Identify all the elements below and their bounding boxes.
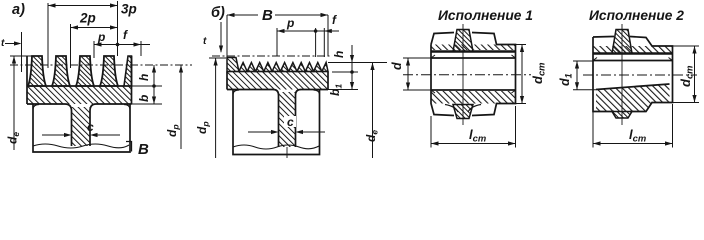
svg-text:c: c [287, 115, 294, 129]
svg-text:В: В [138, 141, 149, 158]
svg-text:b: b [137, 95, 151, 102]
svg-text:h: h [137, 74, 151, 81]
svg-text:h: h [332, 51, 346, 58]
svg-text:2p: 2p [79, 11, 96, 26]
svg-text:б): б) [211, 5, 225, 21]
svg-text:c: c [87, 120, 94, 134]
svg-text:p: p [97, 30, 105, 44]
svg-text:а): а) [12, 2, 25, 18]
svg-text:В: В [262, 7, 273, 24]
svg-text:p: p [286, 16, 294, 30]
svg-text:d: d [390, 62, 404, 70]
svg-text:3p: 3p [121, 2, 137, 17]
svg-text:Исполнение 2: Исполнение 2 [589, 8, 684, 23]
svg-text:Исполнение 1: Исполнение 1 [438, 8, 533, 23]
